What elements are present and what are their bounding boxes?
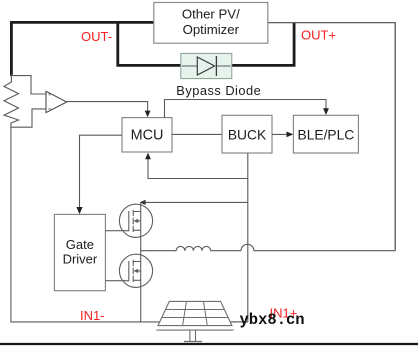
wire thick bypass diode cathode to OUT+ riser — [232, 23, 295, 67]
svg-text:ybx8.cn: ybx8.cn — [240, 311, 305, 329]
wire OUT- thick top-left — [11, 22, 153, 76]
svg-text:Bypass Diode: Bypass Diode — [176, 83, 261, 98]
svg-text:BLE/PLC: BLE/PLC — [298, 127, 355, 142]
svg-text:IN1-: IN1- — [80, 308, 105, 323]
box BLE/PLC — [293, 115, 358, 153]
wire IN1+ vertical from BUCK bottom to panel — [232, 153, 248, 322]
bottom border line — [0, 343, 418, 345]
inductor L1 with crossover hop — [141, 244, 396, 250]
resistor shunt R1 — [4, 74, 19, 128]
svg-text:MCU: MCU — [131, 127, 164, 143]
wire drain rail with small left arrow — [143, 201, 248, 203]
bypass diode D1 — [181, 53, 232, 78]
solar panel PV1 — [156, 301, 233, 341]
svg-text:OUT-: OUT- — [81, 29, 112, 44]
svg-text:Other PV/: Other PV/ — [182, 7, 240, 22]
wire MCU to BLE/PLC with arrow — [165, 100, 327, 118]
arrow BUCK to BLE/PLC — [272, 133, 289, 135]
box other PV/optimizer — [154, 3, 268, 44]
transistor Q2 low-side MOSFET — [105, 251, 152, 322]
svg-text:OUT+: OUT+ — [301, 28, 336, 43]
wire feedback to MCU bottom with arrow — [148, 157, 248, 179]
wire amp output to MCU with arrow — [67, 102, 148, 113]
box gate driver — [54, 214, 105, 290]
op-amp U1 current sense — [11, 76, 67, 128]
box BUCK — [222, 115, 272, 153]
wire MCU to gate driver with arrow — [80, 135, 123, 209]
wire left vertical and IN1- rail — [11, 127, 248, 322]
svg-text:Optimizer: Optimizer — [183, 22, 240, 37]
wire thick drop to bypass diode anode — [116, 21, 181, 65]
box MCU — [122, 118, 172, 152]
wire MCU to BUCK — [172, 133, 222, 135]
svg-text:Driver: Driver — [63, 252, 98, 267]
transistor Q1 high-side MOSFET — [105, 202, 152, 251]
wire OUT+ thin: box right edge to right rail down to inductor line — [268, 23, 395, 251]
svg-text:BUCK: BUCK — [228, 127, 267, 142]
svg-text:Gate: Gate — [66, 237, 94, 252]
